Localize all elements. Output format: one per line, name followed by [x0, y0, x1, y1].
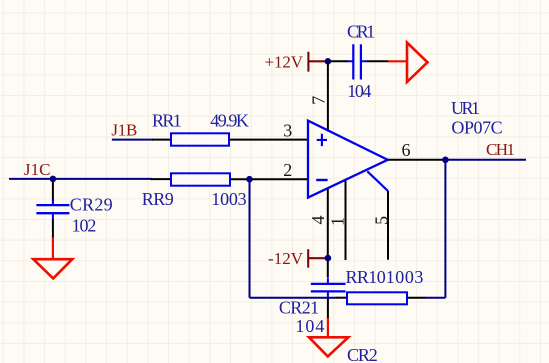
feedback wire left vertical	[249, 179, 251, 298]
svg-text:CR21: CR21	[279, 298, 319, 318]
ground at J1C	[33, 237, 72, 278]
capacitor CR29	[36, 195, 112, 215]
svg-text:J1B: J1B	[111, 120, 137, 139]
svg-text:6: 6	[402, 140, 411, 160]
svg-text:104: 104	[295, 316, 324, 336]
svg-text:7: 7	[309, 96, 329, 105]
pin 1 wire	[345, 180, 347, 260]
wire CR1 to ground	[367, 60, 389, 62]
resistor RR1	[152, 110, 308, 145]
power port -12V	[268, 249, 326, 268]
node junction pin2/feedback	[246, 176, 253, 183]
node A junction +12V	[325, 58, 332, 65]
svg-text:CH1: CH1	[486, 140, 515, 159]
svg-text:CR1: CR1	[347, 22, 375, 42]
svg-text:OP07C: OP07C	[451, 118, 502, 138]
svg-text:1003: 1003	[386, 267, 424, 287]
pin 5 wire	[387, 191, 389, 260]
svg-text:2: 2	[283, 160, 292, 180]
pin 6 output wire	[388, 159, 445, 161]
resistor RR10	[336, 267, 426, 304]
svg-text:1: 1	[328, 217, 348, 226]
svg-text:CR2: CR2	[347, 345, 378, 363]
svg-text:102: 102	[72, 216, 97, 236]
op-amp UR1	[308, 121, 388, 198]
node output junction	[442, 157, 449, 164]
feedback wire right vertical	[444, 160, 446, 298]
capacitor CR21	[279, 284, 346, 318]
wire to CR29 top plate	[52, 200, 54, 205]
svg-text:CR29: CR29	[70, 195, 113, 215]
svg-text:UR1: UR1	[451, 98, 480, 118]
svg-text:5: 5	[372, 216, 392, 225]
svg-text:104: 104	[347, 81, 371, 101]
wire J1C	[9, 178, 152, 180]
pin 4 wire	[327, 189, 329, 278]
power port +12V	[265, 52, 327, 72]
svg-text:49.9K: 49.9K	[210, 110, 249, 130]
svg-text:RR1: RR1	[152, 110, 182, 130]
node junction J1C	[50, 176, 57, 183]
node junction -12V	[325, 255, 332, 262]
svg-text:3: 3	[283, 120, 292, 140]
wire +12V junction to CR1	[328, 60, 348, 62]
svg-text:+12V: +12V	[265, 53, 304, 72]
feedback wire bottom right	[426, 297, 446, 299]
capacitor CR1	[347, 22, 375, 80]
wire output to CH1	[445, 159, 526, 161]
wire J1B	[112, 139, 153, 141]
CR29 bottom pin	[52, 213, 54, 237]
svg-text:4: 4	[308, 216, 328, 225]
CR21 pin to ground	[327, 291, 329, 297]
feedback wire bottom	[250, 297, 337, 299]
svg-text:-12V: -12V	[268, 249, 304, 268]
wire -12V junction to CR21	[327, 278, 329, 284]
pin 7 wire	[327, 61, 329, 130]
resistor RR9	[142, 173, 308, 209]
ground (right-pointing) at CR1	[388, 43, 428, 82]
svg-text:J1C: J1C	[24, 160, 51, 179]
svg-text:RR9: RR9	[142, 189, 174, 209]
svg-text:1003: 1003	[211, 189, 246, 209]
ground at CR2	[309, 318, 348, 356]
wire J1C junction to CR29	[52, 179, 54, 201]
svg-text:RR10: RR10	[346, 267, 386, 287]
